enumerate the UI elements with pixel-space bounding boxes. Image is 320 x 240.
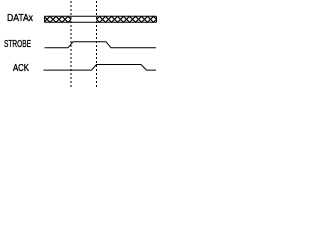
svg-text:DATAx: DATAx <box>7 13 34 24</box>
svg-text:STROBE: STROBE <box>4 39 31 50</box>
svg-text:ACK: ACK <box>13 63 29 74</box>
